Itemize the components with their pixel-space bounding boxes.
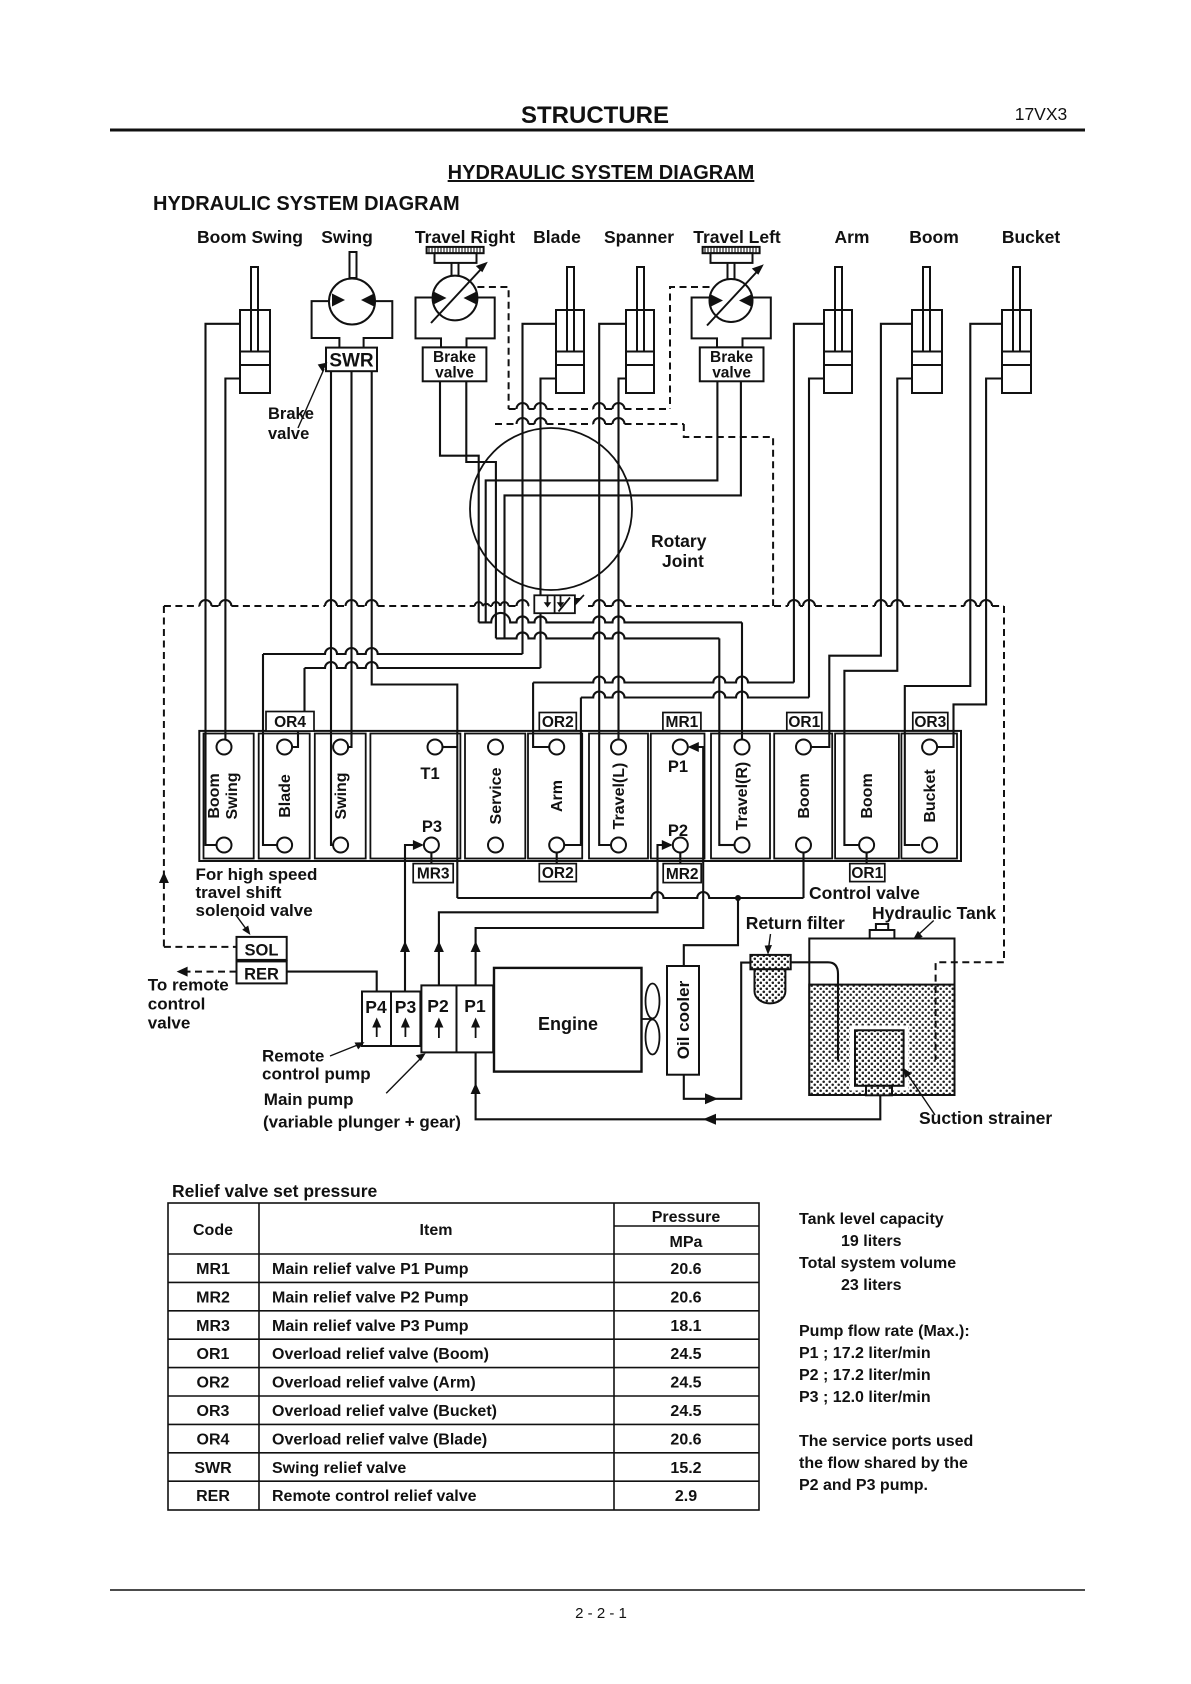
svg-text:Remote control relief valve: Remote control relief valve <box>272 1488 477 1505</box>
svg-text:Arm: Arm <box>834 227 869 247</box>
arrowhead up on P2 riser <box>434 941 444 952</box>
svg-text:P3: P3 <box>422 818 442 836</box>
footer rule and page number <box>110 1590 1085 1622</box>
svg-text:Engine: Engine <box>538 1014 598 1034</box>
swing motor group <box>312 252 393 371</box>
svg-text:For high speed: For high speed <box>196 865 318 884</box>
TR bracket plate <box>416 298 495 348</box>
return filter <box>750 955 790 1003</box>
svg-text:Relief valve set pressure: Relief valve set pressure <box>172 1181 378 1201</box>
MR2 label box <box>663 864 701 883</box>
svg-text:OR1: OR1 <box>851 865 883 882</box>
section Boom Swing <box>204 734 254 859</box>
svg-text:P2 and P3 pump.: P2 and P3 pump. <box>799 1477 928 1494</box>
svg-text:Bucket: Bucket <box>1002 227 1061 247</box>
svg-text:P4: P4 <box>365 997 387 1017</box>
svg-text:Boom: Boom <box>909 227 959 247</box>
svg-text:Overload relief valve (Bucket): Overload relief valve (Bucket) <box>272 1403 497 1420</box>
wire boom cyl port2 to boom2 bottom circle <box>844 379 912 846</box>
swing motor circle <box>329 279 375 325</box>
MR1 label box <box>663 713 701 731</box>
svg-text:valve: valve <box>435 365 474 382</box>
wire spanner port1 to travel(L) bottom circle <box>599 324 626 845</box>
arrowhead left on RER dashed <box>177 967 188 977</box>
main dashed pilot row right part <box>588 605 593 607</box>
svg-text:Blade: Blade <box>533 227 581 247</box>
svg-text:valve: valve <box>712 365 751 382</box>
cylinder Boom <box>912 267 942 393</box>
svg-text:MR1: MR1 <box>666 714 699 731</box>
header STRUCTURE <box>110 102 1085 130</box>
OR1 top label box <box>787 713 822 731</box>
wire travel left brake pipe1 (to row D) <box>486 381 718 622</box>
svg-text:RER: RER <box>244 966 279 984</box>
svg-text:Pump flow rate (Max.):: Pump flow rate (Max.): <box>799 1323 970 1340</box>
svg-text:MR1: MR1 <box>196 1261 230 1278</box>
pump internal up arrows <box>377 1026 476 1038</box>
svg-text:24.5: 24.5 <box>670 1346 701 1363</box>
arrowhead up on left dashed line <box>159 872 169 883</box>
svg-text:Swing relief valve: Swing relief valve <box>272 1460 406 1477</box>
svg-text:Spanner: Spanner <box>604 227 674 247</box>
svg-text:Service: Service <box>488 767 505 824</box>
svg-text:OR2: OR2 <box>542 865 574 882</box>
P3 to MR3 box <box>430 853 432 864</box>
svg-text:the flow shared by the: the flow shared by the <box>799 1455 968 1472</box>
MR3 label box <box>413 864 453 883</box>
relief label boxes on valve <box>266 712 948 883</box>
table rows <box>194 1261 701 1505</box>
P2 feed from pump riser <box>439 845 671 985</box>
travel left right-side pilot dashed <box>684 424 773 606</box>
P1 feed from pump riser <box>476 747 704 985</box>
svg-text:To remote: To remote <box>148 976 229 995</box>
svg-text:Swing: Swing <box>321 227 373 247</box>
svg-text:SWR: SWR <box>194 1460 232 1477</box>
svg-text:Control valve: Control valve <box>809 883 920 903</box>
travel right pilot dashed <box>477 287 508 409</box>
svg-text:OR4: OR4 <box>274 714 306 731</box>
relief valve set pressure table <box>168 1203 759 1510</box>
oil cooler outlet to return filter <box>684 963 751 1099</box>
svg-text:Hydraulic Tank: Hydraulic Tank <box>872 903 996 923</box>
svg-text:Brake: Brake <box>433 349 476 366</box>
arrowhead into P2 circle <box>662 840 673 850</box>
row 682 to arm top circle <box>533 677 794 683</box>
arrowhead up on suction riser <box>471 1083 481 1094</box>
svg-text:OR2: OR2 <box>542 714 574 731</box>
svg-text:valve: valve <box>148 1014 191 1033</box>
svg-text:The service ports used: The service ports used <box>799 1433 973 1450</box>
svg-text:OR3: OR3 <box>914 714 946 731</box>
svg-text:Swing: Swing <box>333 772 350 819</box>
wire boom cyl port1 to boom1 top circle <box>811 324 912 747</box>
RER dashed arrow line <box>183 971 237 973</box>
svg-text:SOL: SOL <box>245 942 279 960</box>
variable displacement arrow <box>431 267 483 323</box>
svg-text:Main relief valve P1 Pump: Main relief valve P1 Pump <box>272 1261 469 1278</box>
main dashed pilot row left part <box>164 605 200 607</box>
section Bucket <box>901 734 957 859</box>
svg-text:Boom: Boom <box>796 773 813 818</box>
svg-text:solenoid valve: solenoid valve <box>196 901 313 920</box>
svg-text:P3 ; 12.0 liter/min: P3 ; 12.0 liter/min <box>799 1389 931 1406</box>
svg-text:P3: P3 <box>395 997 417 1017</box>
svg-text:P2: P2 <box>668 822 688 840</box>
section Arm <box>528 734 582 859</box>
svg-text:2.9: 2.9 <box>675 1488 697 1505</box>
wire T1 circle stub <box>443 746 458 748</box>
svg-text:Main pump: Main pump <box>264 1090 354 1109</box>
svg-text:Travel Right: Travel Right <box>415 227 515 247</box>
arrowhead up on P1 riser <box>471 941 481 952</box>
svg-text:20.6: 20.6 <box>670 1289 701 1306</box>
arrowhead right on cooler outlet <box>705 1093 718 1104</box>
section Blade <box>259 734 310 859</box>
svg-text:Pressure: Pressure <box>652 1209 721 1226</box>
P3 feed from pump riser <box>405 845 422 992</box>
wire spanner port2 to travel(L) top circle <box>619 379 627 740</box>
svg-text:17VX3: 17VX3 <box>1015 104 1068 124</box>
svg-text:Suction strainer: Suction strainer <box>919 1108 1052 1128</box>
svg-text:Travel(R): Travel(R) <box>734 762 751 830</box>
svg-text:OR1: OR1 <box>197 1346 230 1363</box>
wire swing pipe2 to swing top circle <box>348 371 351 747</box>
svg-text:20.6: 20.6 <box>670 1431 701 1448</box>
wire travel right brake pipe1 <box>440 381 479 622</box>
svg-text:OR3: OR3 <box>197 1403 230 1420</box>
SOL RER box <box>237 937 287 984</box>
travel right motor group <box>416 247 495 381</box>
svg-text:Boom: Boom <box>206 773 223 818</box>
svg-text:Return filter: Return filter <box>746 913 845 933</box>
brake valve box TR <box>423 347 487 381</box>
section Boom 2 <box>835 734 899 859</box>
svg-text:MPa: MPa <box>670 1234 703 1251</box>
swing bracket plate <box>312 301 393 348</box>
svg-text:HYDRAULIC SYSTEM DIAGRAM: HYDRAULIC SYSTEM DIAGRAM <box>448 162 755 184</box>
fan <box>642 984 660 1055</box>
svg-text:control pump: control pump <box>262 1065 371 1084</box>
junction dot on return pipe <box>735 895 741 901</box>
wire swing pipe1 to swing bottom circle <box>331 371 333 845</box>
svg-text:Joint: Joint <box>662 551 704 571</box>
svg-text:P2 ; 17.2 liter/min: P2 ; 17.2 liter/min <box>799 1367 931 1384</box>
cylinder Spanner <box>626 267 654 393</box>
row D to travel(R) top circle <box>479 613 742 623</box>
wire travel left brake pipe2 (to row E) <box>505 381 741 638</box>
OR4 to blade top circle <box>292 731 298 747</box>
rotated section labels <box>206 762 939 830</box>
cylinder Blade <box>556 267 584 393</box>
TL bracket plate <box>692 298 771 348</box>
TL motor circle <box>710 279 753 322</box>
return drop to oil cooler <box>684 898 738 966</box>
rotary joint circle <box>470 428 632 590</box>
side notes: tank capacity <box>799 1211 973 1494</box>
swing motor rod <box>350 252 357 278</box>
row A to blade bottom circle <box>263 648 523 654</box>
return pipe A (T1 to boom1 bottom) <box>457 892 803 898</box>
section P1/P2 <box>651 734 705 859</box>
suction line from tank to P1 pump <box>476 1052 881 1119</box>
title HYDRAULIC SYSTEM DIAGRAM centered underlined <box>153 162 754 215</box>
boom2 bottom to OR1 box <box>866 853 868 864</box>
actuator column labels <box>197 227 1060 247</box>
arrow to SWR <box>298 369 324 428</box>
svg-text:Remote: Remote <box>262 1047 324 1066</box>
svg-text:Bucket: Bucket <box>922 769 939 823</box>
svg-text:Brake: Brake <box>710 349 753 366</box>
wire arm port1 to row 682 <box>794 324 824 683</box>
wire boom swing port2 to CV top circle <box>225 379 240 740</box>
cylinder Boom Swing <box>240 267 270 393</box>
wavy dashed row 424 <box>495 423 517 425</box>
main pump box P2 P1 <box>421 985 493 1052</box>
left dashed vertical to SOL <box>163 606 165 947</box>
svg-text:Travel(L): Travel(L) <box>611 763 628 830</box>
wire blade port2 down to row B <box>541 379 557 669</box>
travel(R) bottom circle jog <box>719 844 734 846</box>
section Swing <box>315 734 366 859</box>
wire boom swing port1 to boom swing bottom circle <box>206 324 241 845</box>
svg-text:valve: valve <box>268 425 309 443</box>
OR2 top label box <box>539 713 576 731</box>
svg-text:OR1: OR1 <box>788 714 820 731</box>
svg-text:Overload relief valve (Boom): Overload relief valve (Boom) <box>272 1346 489 1363</box>
suction strainer <box>850 1026 909 1091</box>
svg-text:15.2: 15.2 <box>670 1460 701 1477</box>
svg-text:P1: P1 <box>464 996 486 1016</box>
svg-text:MR3: MR3 <box>417 866 450 883</box>
wire swing pipe3 + row C + T1 return drop <box>372 371 458 898</box>
svg-text:OR2: OR2 <box>197 1375 230 1392</box>
wire blade port1 down to row A <box>523 324 557 654</box>
svg-text:Travel Left: Travel Left <box>693 227 781 247</box>
OR4 label box <box>266 712 314 732</box>
high speed shift solenoid valve symbol <box>534 595 584 613</box>
ribbed cap <box>427 247 484 253</box>
svg-text:Boom Swing: Boom Swing <box>197 227 303 247</box>
svg-text:MR2: MR2 <box>196 1289 230 1306</box>
svg-text:Main relief valve P2 Pump: Main relief valve P2 Pump <box>272 1289 469 1306</box>
boom1 top circle jog <box>811 746 829 748</box>
engine box <box>494 968 642 1072</box>
wire bucket port2 to bucket top circle <box>937 379 1002 748</box>
travel left motor group <box>692 247 771 381</box>
arrowhead up on P3 riser <box>400 941 410 952</box>
arrowhead into P1 circle <box>688 742 699 752</box>
wavy dashed row 409 <box>509 408 517 410</box>
svg-text:control: control <box>148 995 206 1014</box>
svg-text:24.5: 24.5 <box>670 1375 701 1392</box>
arm bottom to OR2 box <box>556 853 558 864</box>
section port circles <box>217 740 938 853</box>
right dashed drop to tank <box>936 606 1004 1060</box>
svg-text:Item: Item <box>420 1222 453 1239</box>
svg-text:Tank level capacity: Tank level capacity <box>799 1211 944 1228</box>
brake valve box TL <box>700 347 764 381</box>
svg-text:HYDRAULIC SYSTEM DIAGRAM: HYDRAULIC SYSTEM DIAGRAM <box>153 193 460 215</box>
row B to OR4 box <box>305 662 541 668</box>
svg-text:RER: RER <box>196 1488 230 1505</box>
arrowhead into P3 circle <box>413 840 424 850</box>
OR3 label box <box>913 713 948 731</box>
section Service <box>465 734 525 859</box>
arrowhead left on suction line <box>703 1114 716 1125</box>
section T1/P3 <box>370 734 460 859</box>
svg-text:Total system volume: Total system volume <box>799 1255 956 1272</box>
svg-text:Overload relief valve (Arm): Overload relief valve (Arm) <box>272 1375 476 1392</box>
section Travel(R) <box>711 734 770 859</box>
arrow from text to SOL <box>236 915 248 932</box>
P2 to MR2 box <box>679 853 681 864</box>
wire arm port2 to row 697 <box>809 379 824 698</box>
svg-text:24.5: 24.5 <box>670 1403 701 1420</box>
svg-text:T1: T1 <box>420 765 439 783</box>
svg-text:Oil cooler: Oil cooler <box>674 980 693 1059</box>
svg-text:23 liters: 23 liters <box>841 1277 902 1294</box>
svg-text:Arm: Arm <box>549 780 566 812</box>
control valve outer body <box>199 731 961 861</box>
svg-text:MR2: MR2 <box>666 866 699 883</box>
cylinder Arm <box>824 267 852 393</box>
svg-text:Blade: Blade <box>277 774 294 818</box>
hydraulic tank <box>809 924 954 1095</box>
wire travel right brake pipe2 <box>466 381 496 638</box>
svg-text:Swing: Swing <box>224 772 241 819</box>
remote control pump box P4 P3 <box>362 992 420 1047</box>
svg-text:Code: Code <box>193 1222 233 1239</box>
svg-text:19 liters: 19 liters <box>841 1233 902 1250</box>
row E to travel(R) bottom circle <box>496 632 719 638</box>
return filter outlet into tank <box>791 962 838 1060</box>
svg-text:(variable plunger + gear): (variable plunger + gear) <box>263 1113 461 1132</box>
svg-text:OR4: OR4 <box>197 1431 230 1448</box>
table header text <box>193 1209 720 1251</box>
svg-text:Overload relief valve (Blade): Overload relief valve (Blade) <box>272 1431 487 1448</box>
svg-text:Rotary: Rotary <box>651 531 707 551</box>
svg-text:Boom: Boom <box>859 773 876 818</box>
TR motor circle <box>433 276 478 321</box>
cylinder Bucket <box>1002 267 1031 393</box>
row 697 to arm bottom circle <box>581 692 809 698</box>
svg-text:STRUCTURE: STRUCTURE <box>521 102 669 129</box>
svg-text:MR3: MR3 <box>196 1318 230 1335</box>
T1 P3 P1 P2 labels <box>420 758 688 840</box>
travel left pilot dashed <box>670 287 710 409</box>
oil cooler box <box>667 966 699 1075</box>
OR1 bottom label box <box>850 864 885 882</box>
svg-text:SWR: SWR <box>329 351 374 372</box>
svg-text:20.6: 20.6 <box>670 1261 701 1278</box>
RER to P4 <box>287 972 377 992</box>
svg-text:travel shift: travel shift <box>196 883 282 902</box>
wire bucket port1 to bucket bottom circle <box>905 324 1002 845</box>
svg-text:P1 ; 17.2 liter/min: P1 ; 17.2 liter/min <box>799 1345 931 1362</box>
section Boom 1 <box>774 734 832 859</box>
OR2 bottom label box <box>539 864 576 882</box>
SWR box <box>326 348 377 372</box>
svg-text:18.1: 18.1 <box>670 1318 701 1335</box>
svg-text:Main relief valve P3 Pump: Main relief valve P3 Pump <box>272 1318 469 1335</box>
svg-text:P2: P2 <box>427 996 449 1016</box>
svg-text:2 - 2 - 1: 2 - 2 - 1 <box>575 1605 627 1622</box>
svg-text:P1: P1 <box>668 758 688 776</box>
section Travel(L) <box>589 734 648 859</box>
